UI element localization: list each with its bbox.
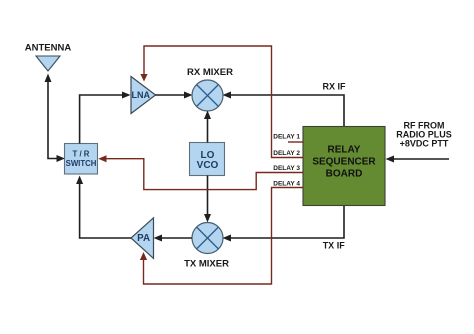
- svg-text:TX IF: TX IF: [323, 241, 346, 251]
- wire delay 4 to PA: [144, 188, 304, 285]
- relay sequencer board: [303, 127, 385, 206]
- wire antenna to T/R switch: [48, 81, 57, 159]
- svg-text:DELAY 1: DELAY 1: [273, 134, 300, 141]
- wire LO VCO to RX mixer: [207, 119, 209, 143]
- arrowhead left into T/R switch: [98, 155, 106, 162]
- T/R switch box: [65, 144, 98, 175]
- wire delay 3 to T/R switch: [106, 159, 303, 190]
- arrowhead up into PA: [140, 252, 147, 260]
- arrowhead left into RX mixer: [223, 92, 232, 99]
- amplifier PA: [131, 218, 154, 259]
- svg-text:VCO: VCO: [197, 160, 219, 171]
- mixer TX: [192, 223, 223, 254]
- arrowhead down into TX mixer: [204, 214, 211, 223]
- arrowhead up into T/R switch: [76, 176, 83, 185]
- wire PA to T/R switch: [80, 183, 131, 238]
- antenna ANT1: [36, 56, 60, 71]
- arrowhead up into RX mixer: [204, 111, 211, 120]
- svg-text:DELAY 4: DELAY 4: [273, 180, 300, 187]
- oscillator LO VCO: [190, 143, 225, 176]
- svg-text:DELAY 2: DELAY 2: [273, 150, 300, 157]
- arrowhead left into TX mixer: [223, 235, 232, 242]
- arrowhead left into relay board: [386, 156, 395, 163]
- svg-text:T / R: T / R: [73, 150, 90, 159]
- svg-text:RX IF: RX IF: [322, 82, 346, 92]
- svg-text:SEQUENCER: SEQUENCER: [312, 157, 376, 168]
- arrowhead right into T/R switch: [57, 155, 66, 162]
- svg-text:ANTENNA: ANTENNA: [25, 43, 72, 54]
- arrowhead right into LNA: [122, 92, 131, 99]
- arrowhead right into RX mixer: [184, 92, 193, 99]
- wire LNA to RX mixer: [156, 94, 185, 96]
- wire delay 1 stub: [288, 141, 303, 143]
- wire T/R switch to LNA: [80, 95, 123, 144]
- mixer RX: [192, 80, 223, 111]
- wire RX IF from relay board to RX mixer: [231, 95, 345, 127]
- arrowhead down into LNA: [140, 74, 147, 82]
- svg-text:RELAY: RELAY: [328, 145, 361, 156]
- op-amp LNA: [131, 77, 156, 114]
- svg-text:TX MIXER: TX MIXER: [184, 259, 229, 270]
- arrowhead left into PA: [154, 235, 163, 242]
- wire delay 2 to LNA: [144, 46, 303, 158]
- wire TX IF from relay board to TX mixer: [231, 206, 345, 239]
- svg-text:LNA: LNA: [132, 90, 151, 100]
- svg-text:RX MIXER: RX MIXER: [187, 67, 233, 78]
- wire RF input to relay board: [394, 158, 450, 160]
- svg-text:DELAY 3: DELAY 3: [273, 165, 300, 172]
- arrowhead up at antenna: [45, 74, 52, 83]
- wire TX mixer to PA: [162, 237, 193, 239]
- svg-text:BOARD: BOARD: [326, 169, 363, 180]
- svg-text:SWITCH: SWITCH: [66, 159, 97, 168]
- wire LO VCO to TX mixer: [207, 176, 209, 216]
- svg-text:PA: PA: [137, 233, 150, 244]
- svg-text:+8VDC PTT: +8VDC PTT: [400, 139, 449, 149]
